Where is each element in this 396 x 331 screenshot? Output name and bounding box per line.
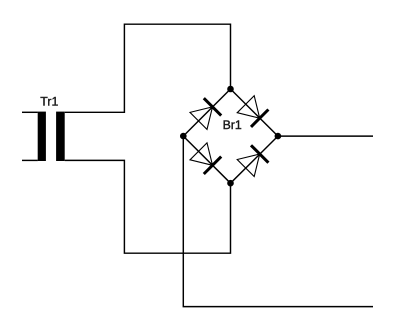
wire primary bottom lead bbox=[22, 159, 38, 161]
diode D4 bottom-right (anode at bottom vertex, cathode bar toward right vertex) bbox=[237, 145, 268, 176]
node bottom vertex junction bbox=[227, 180, 234, 187]
node right vertex junction bbox=[275, 133, 282, 140]
transformer Tr1 bbox=[38, 112, 65, 161]
diode D3 bottom-left (anode at left vertex, cathode bar toward bottom vertex) bbox=[190, 143, 221, 174]
svg-text:Br1: Br1 bbox=[223, 118, 242, 132]
wire bridge edge bottom-right bbox=[231, 136, 278, 183]
wire bridge left vertex to bottom output bbox=[183, 136, 373, 307]
svg-text:Tr1: Tr1 bbox=[40, 95, 58, 109]
wire secondary bottom to bridge bottom bbox=[65, 160, 231, 253]
wire bridge edge left-top bbox=[183, 89, 230, 136]
wire bridge edge left-bottom bbox=[183, 136, 230, 183]
node top vertex junction bbox=[227, 86, 234, 93]
wire secondary top to loop top bbox=[65, 24, 231, 112]
wire bridge edge top-right bbox=[231, 89, 278, 136]
diode D1 top-left (anode at left vertex, cathode bar toward top vertex) bbox=[190, 98, 221, 129]
diode D2 top-right (anode at top vertex, cathode bar toward right vertex) bbox=[237, 96, 268, 127]
wire bridge right vertex output bbox=[278, 135, 373, 137]
node left vertex junction bbox=[180, 133, 187, 140]
wire primary top lead bbox=[22, 111, 38, 113]
